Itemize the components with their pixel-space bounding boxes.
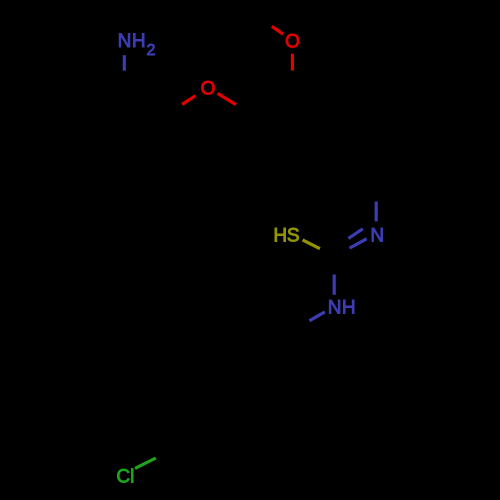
chloro Cl half-bond <box>135 458 156 468</box>
wire: CH2a-CH2b <box>294 330 300 376</box>
amine NH2 label <box>118 31 156 59</box>
imine C2=N1 double bond main half <box>350 239 367 248</box>
svg-text:S: S <box>287 225 300 246</box>
amide N3-C2 half-bond <box>333 275 336 295</box>
methoxy O methyl half-bond <box>272 26 283 34</box>
svg-text:2: 2 <box>147 42 156 59</box>
svg-text:H: H <box>273 225 287 246</box>
amide N3-CH2a half-bond <box>309 312 325 321</box>
wire: bottom benzene ring <box>177 378 262 474</box>
thiol HS label <box>273 225 299 246</box>
svg-text:O: O <box>285 32 300 53</box>
thiol S-C2 half-bond <box>303 240 320 249</box>
svg-text:Cl: Cl <box>116 467 134 488</box>
ether O right half-bond <box>218 93 236 104</box>
invisible carbon skeleton (black on black) <box>124 86 376 474</box>
methoxy O ring half-bond <box>291 54 294 71</box>
imine C2=N1 double bond offset half <box>348 229 362 239</box>
wire: ring V3 to CG <box>342 153 376 182</box>
svg-text:H: H <box>342 297 356 318</box>
svg-text:N: N <box>370 226 384 247</box>
ether O left half-bond <box>182 96 195 105</box>
wire: CH2b-Ci <box>262 376 301 404</box>
svg-text:O: O <box>201 79 216 100</box>
svg-text:N: N <box>328 297 342 318</box>
amine half-bond N-CH2 <box>123 55 126 70</box>
amide NH label <box>328 297 356 318</box>
wire: top benzene ring <box>254 87 342 181</box>
imine N1 upper half-bond to CG <box>375 202 378 222</box>
svg-text:N: N <box>118 31 132 52</box>
svg-text:H: H <box>132 31 146 52</box>
wire: CA-CB chain bond <box>124 86 169 113</box>
